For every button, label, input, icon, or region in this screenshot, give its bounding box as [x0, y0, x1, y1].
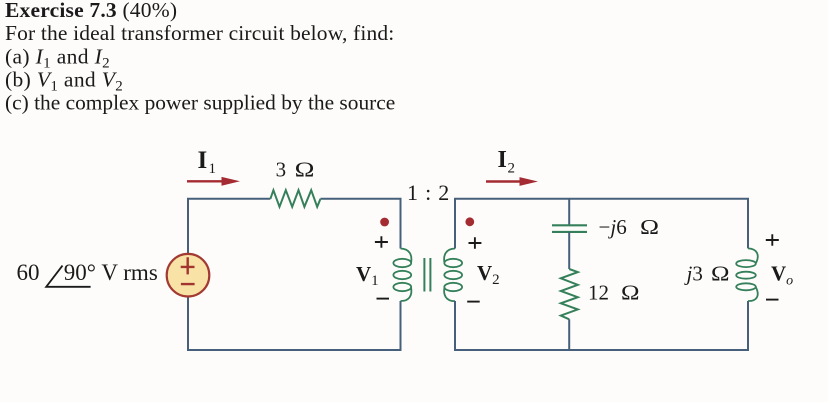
wire middle branch lower	[568, 319, 570, 350]
problem statement text	[5, 0, 395, 115]
inductor j3 coil	[736, 248, 758, 301]
svg-text:Ω: Ω	[295, 157, 315, 181]
wire middle branch between cap and resistor	[568, 232, 570, 269]
label Vo with polarity	[766, 234, 793, 299]
arrow I2	[486, 177, 538, 186]
wire right loop top	[455, 199, 748, 249]
svg-text:Ω: Ω	[621, 280, 640, 304]
voltage source VS	[167, 254, 210, 297]
label V2 with polarity	[467, 237, 499, 301]
transformer primary coil	[393, 249, 411, 302]
svg-text:For the ideal transformer circ: For the ideal transformer circuit below,…	[5, 21, 394, 45]
label 60/90 V rms	[17, 260, 158, 287]
label V1 with polarity	[356, 236, 389, 298]
resistor 12ohm zigzag	[561, 269, 578, 319]
svg-text:2: 2	[508, 161, 516, 177]
dot primary	[380, 218, 389, 227]
svg-text:12: 12	[588, 280, 609, 304]
wire left loop bottom	[188, 297, 401, 350]
capacitor -j6	[552, 225, 587, 232]
svg-text:90° V rms: 90° V rms	[64, 260, 158, 285]
svg-text:1 : 2: 1 : 2	[407, 180, 450, 205]
svg-text:1: 1	[209, 161, 217, 177]
svg-text:−j6: −j6	[599, 215, 627, 239]
svg-text:60: 60	[17, 260, 40, 285]
wire top after resistor to primary	[321, 199, 401, 249]
arrow I1	[187, 177, 240, 186]
svg-text:Ω: Ω	[711, 262, 730, 286]
wire middle branch upper	[568, 199, 570, 225]
wire left loop top	[188, 199, 270, 254]
dot secondary	[465, 217, 474, 226]
transformer secondary coil	[444, 249, 462, 302]
resistor 3ohm zigzag	[270, 190, 320, 207]
svg-text:3: 3	[276, 157, 287, 181]
svg-text:Exercise 7.3 (40%): Exercise 7.3 (40%)	[5, 0, 177, 22]
transformer core	[424, 258, 430, 292]
svg-text:j3: j3	[684, 262, 703, 286]
svg-text:I: I	[498, 147, 507, 173]
wire right loop bottom	[455, 301, 748, 350]
svg-text:I: I	[198, 147, 208, 174]
svg-text:Ω: Ω	[640, 215, 659, 239]
svg-text:(c) the complex power supplied: (c) the complex power supplied by the so…	[5, 91, 395, 115]
